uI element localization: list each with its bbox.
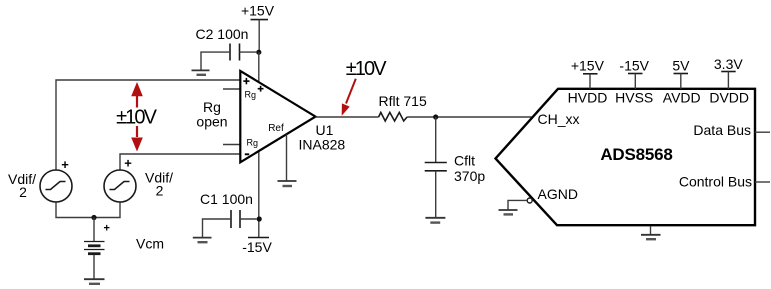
svg-text:+: +	[124, 156, 132, 171]
svg-text:AVDD: AVDD	[663, 90, 701, 106]
svg-text:2: 2	[156, 183, 164, 199]
wire source V2 bottom to Vcm node	[94, 202, 120, 218]
Rg open stub bottom	[223, 144, 240, 146]
node C2 / +15V junction dot	[256, 50, 261, 55]
capacitor C2 100n	[201, 44, 256, 71]
svg-text:Ref: Ref	[268, 123, 284, 134]
node Cflt junction dot	[433, 114, 438, 119]
svg-text:Control Bus: Control Bus	[679, 174, 752, 190]
node Vcm junction dot	[91, 215, 96, 220]
label ±10V (input swing)	[113, 108, 158, 127]
svg-text:HVDD: HVDD	[568, 90, 608, 106]
svg-text:INA828: INA828	[299, 137, 346, 153]
AGND pin circle	[527, 198, 532, 203]
ground at Cflt	[425, 218, 445, 223]
svg-text:C1 100n: C1 100n	[200, 191, 253, 207]
resistor Rflt 715	[379, 112, 408, 121]
wire Rflt to ADC CH_xx input	[407, 116, 531, 118]
svg-text:+15V: +15V	[571, 57, 605, 73]
svg-text:DVDD: DVDD	[709, 90, 749, 106]
power -15V rail at ADC HVSS	[619, 57, 649, 88]
svg-text:370p: 370p	[454, 168, 485, 184]
svg-text:Rg: Rg	[245, 90, 257, 101]
ground at Ref	[278, 181, 297, 186]
svg-text:Rg: Rg	[247, 137, 259, 148]
Rg open stub top	[223, 88, 240, 90]
power 3.3V rail at ADC DVDD	[714, 56, 743, 89]
svg-text:5V: 5V	[672, 57, 690, 73]
svg-text:+15V: +15V	[241, 3, 275, 19]
power +15V rail at ADC HVDD	[571, 57, 605, 88]
node C1 / -15V junction dot	[257, 216, 262, 221]
svg-text:±10V: ±10V	[346, 58, 388, 80]
pin label - (inverting input)	[245, 153, 249, 155]
svg-text:AGND: AGND	[538, 186, 578, 202]
ADC U2 ADS8568 body	[496, 89, 756, 225]
svg-text:-15V: -15V	[242, 239, 272, 255]
svg-text:Data Bus: Data Bus	[693, 122, 751, 138]
svg-text:CH_xx: CH_xx	[538, 111, 580, 127]
ground below Vcm	[84, 279, 105, 284]
battery Vcm	[84, 242, 105, 254]
ground at AGND	[499, 210, 518, 214]
svg-text:2: 2	[19, 184, 27, 200]
power -15V rail at op-amp	[242, 150, 272, 255]
source V2 Vdif/2 circle with ramp symbol	[104, 170, 136, 202]
wire source V1 bottom to Vcm node	[56, 202, 94, 218]
svg-text:Rflt 715: Rflt 715	[379, 93, 427, 109]
power +15V rail at op-amp	[241, 3, 275, 52]
wire Ref pin to ground	[286, 134, 288, 180]
svg-text:Vcm: Vcm	[136, 236, 164, 252]
svg-text:C2 100n: C2 100n	[196, 26, 249, 42]
red double arrow ±10V between inputs	[131, 82, 143, 152]
pin label + (non-inverting input)	[243, 78, 249, 84]
supply + marking	[258, 86, 264, 92]
svg-text:HVSS: HVSS	[615, 90, 653, 106]
ground at C2	[192, 70, 210, 74]
capacitor C1 100n	[203, 210, 257, 237]
wire Vcm node to battery top	[93, 218, 95, 242]
ground at C1	[193, 238, 212, 243]
svg-text:±10V: ±10V	[116, 107, 158, 129]
wire AGND to ground	[508, 200, 527, 209]
power 5V rail at ADC AVDD	[672, 57, 690, 88]
wire op-amp output to Rflt	[316, 116, 379, 118]
wire +IN net from source V1 top to op-amp non-inverting input	[56, 80, 240, 170]
svg-text:-15V: -15V	[619, 57, 649, 73]
ground at ADC bottom	[641, 226, 661, 239]
source V1 Vdif/2 circle with ramp symbol	[40, 170, 72, 202]
svg-text:+: +	[61, 157, 69, 172]
wire +15V dot into op-amp top edge	[258, 52, 260, 84]
svg-text:+: +	[103, 222, 109, 234]
red arrow to output node	[342, 79, 356, 116]
svg-text:open: open	[196, 113, 227, 129]
svg-text:ADS8568: ADS8568	[600, 145, 672, 164]
wire -IN net from source V2 top to op-amp inverting input	[120, 154, 240, 170]
svg-text:Cflt: Cflt	[454, 152, 475, 168]
svg-text:3.3V: 3.3V	[714, 56, 743, 72]
op-amp U1 INA828 triangle	[240, 71, 315, 162]
wire battery bottom to ground	[93, 255, 95, 279]
capacitor Cflt 370p	[425, 117, 447, 217]
